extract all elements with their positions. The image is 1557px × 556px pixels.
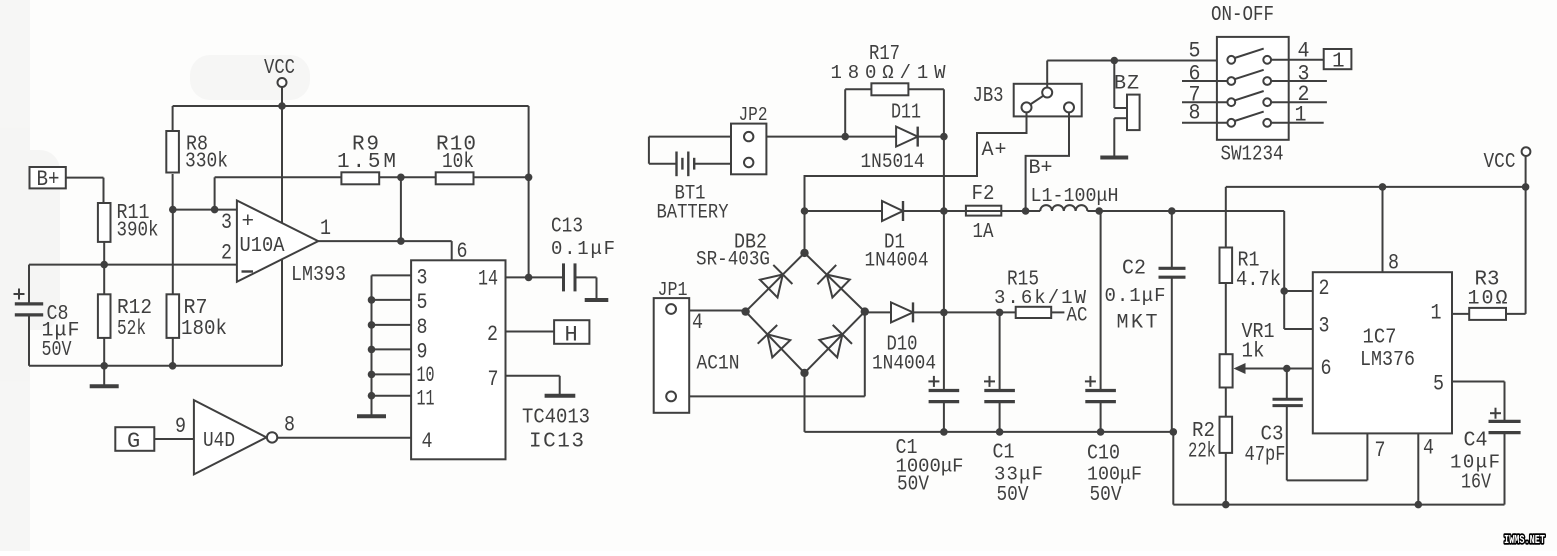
svg-text:4.7k: 4.7k <box>1236 269 1281 292</box>
wire top rail (left) <box>173 102 529 110</box>
terminal G <box>115 427 194 454</box>
svg-text:L1-100μH: L1-100μH <box>1031 185 1119 207</box>
svg-text:8: 8 <box>284 413 295 438</box>
IC7 pin5 wire <box>1433 372 1505 422</box>
inductor L1 <box>1031 185 1119 215</box>
svg-text:50V: 50V <box>997 484 1029 507</box>
svg-text:3: 3 <box>221 210 232 235</box>
resistor R15 <box>944 269 1088 328</box>
terminal 1 box <box>1324 49 1352 74</box>
power VCC terminal (right) <box>1484 147 1531 187</box>
wire op-amp output <box>318 177 467 264</box>
svg-text:U4D: U4D <box>203 430 235 453</box>
svg-text:10: 10 <box>417 363 435 388</box>
svg-text:16V: 16V <box>1461 472 1491 495</box>
IC7 LM376 box <box>1313 272 1452 433</box>
switch pin2 stub <box>1271 82 1327 107</box>
svg-text:LM376: LM376 <box>1360 349 1415 372</box>
svg-text:1C7: 1C7 <box>1363 327 1397 350</box>
IC13 pin4 label <box>422 429 433 454</box>
buzzer BZ <box>1114 61 1140 157</box>
switch pin4 stub <box>1271 39 1324 64</box>
IC13 pin14 wire <box>478 267 564 292</box>
svg-text:0.1μF: 0.1μF <box>1105 285 1166 307</box>
svg-text:100μF: 100μF <box>1087 464 1142 486</box>
IC13 input bus riser <box>371 275 373 414</box>
svg-text:1N5014: 1N5014 <box>861 151 925 174</box>
svg-text:1: 1 <box>320 216 331 241</box>
resistor R2 <box>1188 388 1232 505</box>
switch SW1234 label ON-OFF <box>1211 4 1274 27</box>
ground (BZ) <box>1100 156 1128 160</box>
battery BT1 <box>649 137 731 225</box>
svg-text:33μF: 33μF <box>994 464 1043 486</box>
wire bottom rail (right) <box>1173 501 1504 509</box>
svg-text:R7: R7 <box>184 297 208 320</box>
wire right riser to pin14 node <box>528 106 530 277</box>
svg-text:52k: 52k <box>117 318 146 341</box>
svg-text:TC4013: TC4013 <box>522 407 590 430</box>
svg-text:2: 2 <box>221 241 232 266</box>
wire JP1 pin to bridge left <box>689 310 745 312</box>
svg-text:VCC: VCC <box>1484 151 1516 174</box>
resistor R1 <box>1220 187 1282 354</box>
switch pin1 stub <box>1271 103 1324 128</box>
IC13 part labels <box>522 407 590 454</box>
svg-text:180k: 180k <box>181 318 227 341</box>
svg-text:8: 8 <box>1189 101 1201 126</box>
terminal H <box>554 320 589 347</box>
svg-text:14: 14 <box>478 267 498 292</box>
svg-text:LM393: LM393 <box>291 264 346 287</box>
terminal B+ <box>30 167 104 203</box>
svg-text:3: 3 <box>417 266 428 291</box>
svg-text:1: 1 <box>1295 103 1307 128</box>
IC7 pin4 wire <box>1418 433 1434 504</box>
inverter U4D <box>175 400 295 474</box>
watermark IWMS.NET <box>1504 534 1545 547</box>
svg-text:8: 8 <box>417 315 428 340</box>
node A+ wire <box>801 112 1027 253</box>
node B+ wire <box>1022 112 1069 214</box>
svg-text:AC1N: AC1N <box>697 353 740 376</box>
svg-text:BZ: BZ <box>1114 73 1139 96</box>
diode D1 <box>805 201 948 273</box>
svg-text:1A: 1A <box>973 221 994 244</box>
potentiometer VR1 <box>1220 321 1287 388</box>
capacitor C2 <box>1105 211 1186 432</box>
svg-text:9: 9 <box>175 414 186 439</box>
IC7 pin8 wire <box>1383 187 1400 276</box>
switch pin3 stub <box>1271 62 1327 87</box>
capacitor C13 <box>551 216 615 300</box>
switch pin6 stub <box>1182 62 1227 87</box>
svg-text:+: + <box>242 211 255 234</box>
IC U13 TC4013 box <box>411 260 505 459</box>
wire JB3 common to switch row5 <box>1047 57 1228 88</box>
svg-text:B+: B+ <box>1029 157 1053 180</box>
resistor R8 <box>166 106 228 210</box>
svg-text:4: 4 <box>1298 39 1310 64</box>
wire feedback rail <box>215 174 533 182</box>
power VCC terminal (left) <box>264 57 295 106</box>
svg-text:D11: D11 <box>891 102 921 125</box>
connector JP2 <box>731 104 768 174</box>
svg-text:H: H <box>565 323 578 348</box>
svg-text:11: 11 <box>417 387 435 412</box>
svg-text:SR-403G: SR-403G <box>696 249 770 272</box>
resistor R9 <box>337 134 396 185</box>
svg-text:22k: 22k <box>1188 441 1216 464</box>
wire JP1 pin to bridge right <box>689 312 865 397</box>
svg-text:R12: R12 <box>117 297 152 320</box>
svg-text:C1: C1 <box>993 442 1015 465</box>
capacitor C3 <box>1245 369 1303 481</box>
svg-text:C10: C10 <box>1087 443 1120 466</box>
ground (left section) <box>90 366 119 387</box>
svg-text:4: 4 <box>422 429 433 454</box>
svg-text:5: 5 <box>1433 372 1444 397</box>
svg-text:1k: 1k <box>1242 341 1265 364</box>
connector JP1 <box>654 279 740 413</box>
capacitor C8 <box>14 265 80 366</box>
svg-text:VCC: VCC <box>264 57 295 80</box>
svg-text:1: 1 <box>1332 51 1345 74</box>
svg-text:6: 6 <box>1321 356 1332 381</box>
switch SW1234 contacts <box>1227 49 1271 127</box>
svg-text:MKT: MKT <box>1117 312 1158 335</box>
svg-text:ON-OFF: ON-OFF <box>1211 4 1274 27</box>
svg-text:G: G <box>127 429 140 454</box>
svg-text:BATTERY: BATTERY <box>657 202 729 225</box>
svg-text:3: 3 <box>1319 314 1330 339</box>
svg-text:U10A: U10A <box>240 235 285 258</box>
svg-text:B+: B+ <box>37 167 60 192</box>
svg-text:2: 2 <box>487 322 498 347</box>
ground (IC13 inputs) <box>357 415 386 417</box>
svg-text:390k: 390k <box>117 220 159 243</box>
svg-text:50V: 50V <box>1090 484 1122 507</box>
IC13 pin5 wire <box>368 290 428 315</box>
wire JP2 to D11 node <box>766 133 849 141</box>
op-amp U10A <box>221 106 346 366</box>
svg-text:4: 4 <box>692 310 703 335</box>
svg-text:2: 2 <box>1319 276 1330 301</box>
resistor R10 <box>436 134 476 185</box>
wire bottom rail (left) <box>29 362 282 370</box>
svg-text:F2: F2 <box>972 183 995 206</box>
diode D10 <box>865 302 948 375</box>
svg-text:50V: 50V <box>42 339 72 362</box>
svg-text:AC: AC <box>1067 305 1088 328</box>
IC7 pin7 wire <box>1287 433 1386 480</box>
wire op-amp inverting input rail <box>29 261 237 269</box>
IC13 pin3 wire <box>372 266 428 291</box>
switch pin7 stub <box>1182 83 1227 108</box>
relay contact JB3 <box>973 84 1082 117</box>
IC7 pin3 wire <box>1284 314 1329 339</box>
svg-text:7: 7 <box>488 367 499 392</box>
IC7 pin6 wire <box>1283 356 1332 381</box>
switch SW1234 name <box>1221 144 1284 167</box>
svg-text:10μF: 10μF <box>1450 452 1500 474</box>
svg-text:C13: C13 <box>551 216 583 239</box>
ground (IC13 pin7) <box>545 394 576 398</box>
IC13 pin9 wire <box>368 340 428 365</box>
wire VCC rail (right) <box>1226 183 1530 191</box>
resistor R12 <box>98 265 152 366</box>
svg-text:C4: C4 <box>1464 430 1488 453</box>
IC7 part labels <box>1360 327 1415 373</box>
IC13 pin11 wire <box>368 387 435 412</box>
svg-text:IWMS.NET: IWMS.NET <box>1504 534 1545 547</box>
svg-text:330k: 330k <box>185 151 228 174</box>
svg-text:1N4004: 1N4004 <box>872 353 936 376</box>
IC13 pin7 wire <box>488 367 560 394</box>
svg-text:IC13: IC13 <box>529 431 584 454</box>
switch pin8 stub <box>1182 101 1227 126</box>
IC13 pin8 wire <box>368 315 428 340</box>
IC7 pin2 wire <box>1280 276 1329 301</box>
svg-text:1N4004: 1N4004 <box>865 250 929 273</box>
svg-text:5: 5 <box>1189 39 1201 64</box>
ground (C13) <box>585 298 609 302</box>
capacitor C1 (1000uF) <box>896 376 964 497</box>
wire negative rail (middle) <box>805 373 1178 505</box>
svg-text:50V: 50V <box>897 474 929 497</box>
svg-text:5: 5 <box>417 290 428 315</box>
resistor R7 <box>167 210 228 366</box>
IC7 pin1 / resistor R3 <box>1431 187 1526 326</box>
IC13 pin2 wire <box>487 322 554 347</box>
svg-text:47pF: 47pF <box>1245 444 1286 467</box>
svg-text:JB3: JB3 <box>973 85 1004 108</box>
svg-text:10k: 10k <box>442 151 474 174</box>
svg-text:SW1234: SW1234 <box>1221 144 1284 167</box>
capacitor C1 (33uF) <box>984 312 1043 507</box>
IC13 pin10 wire <box>368 363 435 388</box>
fuse F2 <box>944 183 1040 244</box>
wire U4D output to IC13 pin4 <box>277 437 411 439</box>
capacitor C4 <box>1450 408 1521 505</box>
wire op-amp noninverting input node <box>169 177 237 213</box>
svg-text:C2: C2 <box>1122 258 1146 281</box>
svg-text:A+: A+ <box>982 139 1007 162</box>
capacitor C10 <box>1085 211 1142 507</box>
resistor R17 <box>831 43 947 137</box>
svg-text:0.1μF: 0.1μF <box>551 238 615 260</box>
svg-text:7: 7 <box>1375 438 1386 463</box>
svg-text:1: 1 <box>1431 301 1442 326</box>
resistor R11 <box>98 202 159 265</box>
svg-text:9: 9 <box>417 340 428 365</box>
switch pin5 stub <box>1189 39 1201 64</box>
svg-text:8: 8 <box>1388 251 1399 276</box>
wire main positive riser <box>943 137 945 391</box>
diode D11 <box>845 102 948 175</box>
wire B+ rail to IC7 inputs <box>1099 207 1284 329</box>
switch SW1234 box <box>1217 37 1289 140</box>
bridge rectifier DB2 <box>696 232 869 378</box>
svg-text:4: 4 <box>1423 436 1434 461</box>
